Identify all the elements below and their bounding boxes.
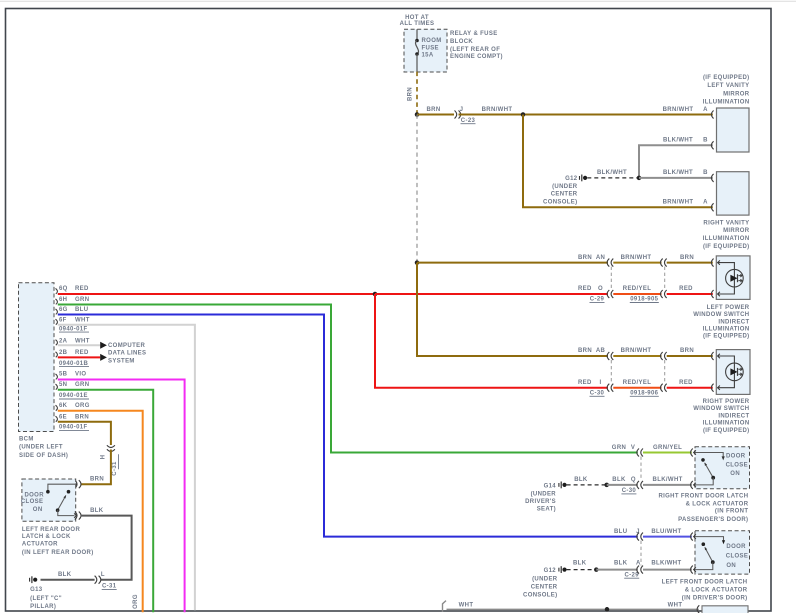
svg-text:LEFT FRONT DOOR LATCH: LEFT FRONT DOOR LATCH xyxy=(662,580,748,586)
ground G12 (under center console) xyxy=(580,175,588,182)
junction at fuse output xyxy=(415,112,420,117)
svg-text:(UNDER: (UNDER xyxy=(532,577,558,583)
svg-text:BRN/WHT: BRN/WHT xyxy=(621,255,652,261)
switch pivot right front xyxy=(711,476,715,480)
junction BLK/WHT xyxy=(637,176,642,181)
svg-text:ALL TIMES: ALL TIMES xyxy=(400,21,435,27)
BCM pin 2B RED xyxy=(56,350,90,357)
label HOT AT ALL TIMES xyxy=(400,15,435,27)
svg-text:ENGINE COMPT): ENGINE COMPT) xyxy=(450,54,503,60)
box right front door latch switch xyxy=(695,447,750,489)
label RIGHT POWER WINDOW SWITCH INDIRECT ILLUMINATION xyxy=(693,399,750,434)
svg-text:BRN: BRN xyxy=(578,348,592,354)
svg-text:GRN: GRN xyxy=(75,382,89,388)
svg-text:0940-01B: 0940-01B xyxy=(59,361,88,367)
page top edge line xyxy=(0,0,796,2)
wire BRN/WHT to left vanity mirror xyxy=(459,114,713,116)
BCM pin 6F WHT xyxy=(56,317,90,324)
wire BRN dashed from fuse xyxy=(416,72,418,113)
svg-text:BLU: BLU xyxy=(75,307,88,313)
switch left front door latch xyxy=(695,537,725,546)
svg-text:(UNDER LEFT: (UNDER LEFT xyxy=(19,445,63,451)
svg-text:BRN: BRN xyxy=(578,255,592,261)
svg-text:LATCH & LOCK: LATCH & LOCK xyxy=(22,534,71,540)
connector body dashed left front xyxy=(640,541,642,566)
svg-text:AB: AB xyxy=(596,348,606,354)
connector C-30 pin V xyxy=(637,449,639,457)
wire GRN from BCM 6H to right front door latch xyxy=(58,305,638,453)
ground G12 lower (under center console) xyxy=(559,566,567,573)
pin connector left vanity B xyxy=(711,141,713,149)
label DOOR CLOSE ON right front xyxy=(726,454,748,478)
wire BLK A to connector xyxy=(596,569,638,571)
switch arm left front xyxy=(705,547,713,562)
ground G14 (under driver's seat) xyxy=(559,482,567,489)
fuse ROOM FUSE 15A xyxy=(415,29,419,71)
wire BLK from C-31 to ground xyxy=(41,579,95,581)
switch arm right front xyxy=(705,463,714,478)
svg-text:6K: 6K xyxy=(59,403,68,409)
wire RED from BCM 6Q xyxy=(58,293,375,295)
svg-text:RED: RED xyxy=(75,350,89,356)
box left rear door latch switch xyxy=(22,479,76,521)
wire BLU/WHT to left front latch xyxy=(643,536,692,538)
pin chevron right front bottom xyxy=(694,483,696,487)
wire BLK/WHT to left front latch xyxy=(643,569,692,571)
box bottom cut off component xyxy=(702,606,748,613)
wire BRN/WHT row2 xyxy=(613,355,661,357)
box left vanity mirror illumination xyxy=(717,108,750,152)
wire BRN from BCM 6E to connector C-31 xyxy=(58,422,111,445)
svg-text:L: L xyxy=(101,572,105,578)
wire WHT bottom row xyxy=(447,608,699,610)
svg-text:PASSENGER'S DOOR): PASSENGER'S DOOR) xyxy=(678,517,748,523)
svg-text:CLOSE: CLOSE xyxy=(21,499,43,505)
svg-text:CLOSE: CLOSE xyxy=(726,553,748,559)
svg-text:B: B xyxy=(703,170,708,176)
fuse block box (RELAY & FUSE BLOCK) xyxy=(404,29,447,72)
connector body dashed row2 second xyxy=(664,360,666,384)
svg-text:ROOM: ROOM xyxy=(422,38,442,44)
led U1 left power window switch xyxy=(717,263,734,294)
svg-text:RIGHT FRONT DOOR LATCH: RIGHT FRONT DOOR LATCH xyxy=(658,493,748,499)
pin connector led box1 top xyxy=(711,259,713,267)
label G14 (UNDER DRIVER'S SEAT) xyxy=(525,483,556,512)
svg-text:RIGHT POWER: RIGHT POWER xyxy=(703,399,750,405)
svg-text:DOOR: DOOR xyxy=(726,544,746,550)
svg-text:BRN: BRN xyxy=(408,87,414,101)
wire RED row2 to box xyxy=(667,387,713,389)
svg-text:0918-905: 0918-905 xyxy=(630,297,658,303)
svg-text:RED: RED xyxy=(679,380,693,386)
svg-text:RED: RED xyxy=(578,286,592,292)
pin chevron door switch BLK xyxy=(74,513,76,517)
svg-text:ILLUMINATION: ILLUMINATION xyxy=(703,100,750,106)
svg-text:C-29: C-29 xyxy=(590,297,605,303)
BCM pin 6K ORG xyxy=(56,403,90,411)
svg-text:LEFT POWER: LEFT POWER xyxy=(707,305,750,311)
wire WHT from BCM 6F xyxy=(58,325,195,611)
svg-text:WINDOW SWITCH: WINDOW SWITCH xyxy=(693,406,749,412)
svg-text:BRN/WHT: BRN/WHT xyxy=(663,107,694,113)
pin connector led box1 bottom xyxy=(711,290,713,298)
svg-text:BRN/WHT: BRN/WHT xyxy=(663,200,694,206)
svg-text:ILLUMINATION: ILLUMINATION xyxy=(703,236,750,242)
svg-text:WINDOW SWITCH: WINDOW SWITCH xyxy=(693,312,749,318)
label G13 (LEFT C PILLAR) xyxy=(30,587,62,610)
svg-text:ON: ON xyxy=(726,563,736,569)
box BCM connector xyxy=(19,283,55,432)
switch pivot left front xyxy=(711,560,715,564)
BCM pin 6Q RED xyxy=(56,286,90,294)
wire BRN from C-31 to door switch xyxy=(81,450,111,485)
junction BRN/WHT branch xyxy=(521,112,526,117)
svg-text:RED: RED xyxy=(75,286,89,292)
svg-text:COMPUTER: COMPUTER xyxy=(108,343,145,349)
svg-text:5N: 5N xyxy=(59,382,67,388)
svg-text:DOOR: DOOR xyxy=(24,493,44,499)
pin chevron led box2 top xyxy=(718,354,720,358)
connector body dashed row1 second xyxy=(664,267,666,290)
svg-text:CENTER: CENTER xyxy=(531,585,558,591)
svg-text:GRN/YEL: GRN/YEL xyxy=(653,445,682,451)
junction RED branch xyxy=(373,292,378,297)
svg-text:BRN: BRN xyxy=(680,255,694,261)
svg-text:0940-01F: 0940-01F xyxy=(59,425,88,431)
arrow computer data lines 2 xyxy=(100,354,107,361)
svg-text:O: O xyxy=(598,286,603,292)
connector C-29 pin A xyxy=(637,566,639,574)
pin connector door switch BLK xyxy=(75,512,77,520)
svg-text:& LOCK ACTUATOR: & LOCK ACTUATOR xyxy=(685,588,748,594)
svg-text:(IN FRONT: (IN FRONT xyxy=(715,509,748,515)
label LEFT POWER WINDOW SWITCH INDIRECT ILLUMINATION xyxy=(693,305,750,340)
pin connector right front latch top xyxy=(691,449,693,457)
svg-text:V: V xyxy=(631,445,635,451)
svg-text:& LOCK ACTUATOR: & LOCK ACTUATOR xyxy=(686,501,749,507)
pin connector left front latch top xyxy=(691,533,693,541)
junction BRN at row 1 xyxy=(415,260,420,265)
wire to BLK pin left rear xyxy=(58,510,75,516)
svg-text:6H: 6H xyxy=(59,297,67,303)
svg-text:SEAT): SEAT) xyxy=(537,506,556,512)
svg-text:ON: ON xyxy=(730,471,740,477)
svg-text:RED: RED xyxy=(679,286,693,292)
svg-text:6G: 6G xyxy=(59,307,68,313)
connector C-31 pin L xyxy=(95,576,97,584)
wire GRN/YEL to right front door latch xyxy=(643,452,692,454)
svg-text:BLK/WHT: BLK/WHT xyxy=(597,170,627,176)
svg-text:DRIVER'S: DRIVER'S xyxy=(525,499,556,505)
pin connector bottom box xyxy=(697,605,699,613)
pin connector left front latch bottom xyxy=(691,566,693,574)
label G12 under center console xyxy=(543,176,578,205)
svg-text:CONSOLE): CONSOLE) xyxy=(543,199,577,205)
svg-text:INDIRECT: INDIRECT xyxy=(718,413,749,419)
wire GRN from BCM 5N xyxy=(58,390,153,613)
svg-text:BRN/WHT: BRN/WHT xyxy=(621,348,652,354)
svg-text:BLK/WHT: BLK/WHT xyxy=(663,138,693,144)
svg-text:(IN DRIVER'S DOOR): (IN DRIVER'S DOOR) xyxy=(682,596,748,602)
connector 0918-906 arcs row2 brn xyxy=(661,352,663,360)
svg-text:G12: G12 xyxy=(565,176,578,182)
switch left rear door latch xyxy=(46,484,76,493)
wire WHT 2A to computer data lines xyxy=(58,344,100,346)
wire BRN row2 to box xyxy=(667,355,713,357)
label RIGHT FRONT DOOR LATCH & LOCK ACTUATOR xyxy=(658,493,748,523)
svg-text:6E: 6E xyxy=(59,414,67,420)
svg-text:WHT: WHT xyxy=(459,603,474,609)
svg-text:ACTUATOR: ACTUATOR xyxy=(22,541,58,547)
connector C-30 pin Q xyxy=(637,481,639,489)
junction BLK G12 xyxy=(594,567,599,572)
connector C-30 arcs row2 brn xyxy=(607,352,609,360)
svg-text:(IN LEFT REAR DOOR): (IN LEFT REAR DOOR) xyxy=(22,550,94,556)
pin connector led box2 top xyxy=(711,352,713,360)
svg-text:BLK: BLK xyxy=(90,508,104,514)
BCM pin 6E BRN xyxy=(56,414,90,421)
label BLU J xyxy=(614,529,640,535)
svg-text:LEFT REAR DOOR: LEFT REAR DOOR xyxy=(22,527,81,533)
wire to BLK pin right front xyxy=(695,478,713,485)
connector C-23 pin J xyxy=(455,111,461,119)
svg-text:C-31: C-31 xyxy=(102,584,117,590)
label BLK Q xyxy=(612,477,636,483)
label LEFT REAR DOOR LATCH & LOCK ACTUATOR xyxy=(22,527,94,556)
svg-text:BLK: BLK xyxy=(614,560,628,566)
connector body dashed row2 first xyxy=(610,360,612,384)
wire BRN to C-23 xyxy=(417,114,454,116)
svg-text:6Q: 6Q xyxy=(59,286,68,292)
svg-text:BRN: BRN xyxy=(90,477,104,483)
connector C-31 pin H vertical xyxy=(107,445,115,451)
label ROOM FUSE 15A xyxy=(422,38,442,58)
svg-text:VIO: VIO xyxy=(75,372,86,378)
svg-text:2B: 2B xyxy=(59,350,68,356)
svg-text:G13: G13 xyxy=(30,587,43,593)
wire BLK/WHT from left vanity pin B xyxy=(639,145,713,178)
switch pivot left rear xyxy=(56,508,60,512)
svg-text:C-31: C-31 xyxy=(112,461,118,476)
pin chevron left front top xyxy=(694,534,696,538)
svg-text:RED/YEL: RED/YEL xyxy=(623,286,651,292)
connector C-29 pin J xyxy=(637,533,639,541)
svg-text:BLK: BLK xyxy=(573,560,587,566)
wire BLU from BCM 6G to left front door latch xyxy=(58,315,638,537)
wire dashed vertical to window switch rows xyxy=(416,115,418,263)
pin chevron left front bottom xyxy=(694,567,696,571)
svg-text:BRN: BRN xyxy=(680,348,694,354)
svg-text:0940-01F: 0940-01F xyxy=(59,326,88,332)
svg-text:BLOCK: BLOCK xyxy=(450,39,473,45)
svg-text:BLK: BLK xyxy=(574,477,588,483)
svg-text:PILLAR): PILLAR) xyxy=(30,604,56,610)
switch arm left rear xyxy=(58,495,66,510)
connector 0918-905 row1 xyxy=(661,259,663,267)
ground G13 (left C pillar) xyxy=(30,576,38,583)
svg-text:6F: 6F xyxy=(59,317,67,323)
label LEFT FRONT DOOR LATCH & LOCK ACTUATOR xyxy=(662,580,748,602)
svg-text:G14: G14 xyxy=(544,483,557,489)
connector C-29 arcs row1 red xyxy=(607,290,609,298)
svg-text:WHT: WHT xyxy=(75,338,90,344)
svg-text:RED: RED xyxy=(578,380,592,386)
pin connector right vanity A xyxy=(711,203,713,211)
svg-text:CONSOLE): CONSOLE) xyxy=(523,593,557,599)
wire BLK Q to connector xyxy=(607,484,638,486)
svg-text:BCM: BCM xyxy=(19,437,34,443)
connector C-30 arcs row2 red xyxy=(607,384,609,392)
svg-text:A: A xyxy=(703,107,708,113)
svg-text:I: I xyxy=(599,380,601,386)
wire BRN/WHT branch to right vanity pin A xyxy=(523,115,713,208)
svg-text:FUSE: FUSE xyxy=(422,45,439,51)
svg-text:ON: ON xyxy=(33,507,43,513)
svg-text:BRN: BRN xyxy=(75,414,89,420)
wire RED row1 xyxy=(375,293,608,295)
wire BLK dashed from G12 lower xyxy=(567,569,597,571)
svg-text:BLK: BLK xyxy=(612,477,626,483)
svg-text:(UNDER: (UNDER xyxy=(531,491,557,497)
wire RED/YEL row2 xyxy=(613,387,661,389)
connector body dashed right front xyxy=(640,457,642,481)
svg-text:2A: 2A xyxy=(59,338,68,344)
svg-text:0940-01E: 0940-01E xyxy=(59,393,88,399)
wire BLK from door switch to G13 xyxy=(81,516,132,580)
label G12 (UNDER CENTER CONSOLE) lower xyxy=(523,568,558,599)
svg-text:(IF EQUIPPED): (IF EQUIPPED) xyxy=(703,244,750,250)
wire BRN/WHT row1 xyxy=(613,262,661,264)
svg-text:WHT: WHT xyxy=(75,317,90,323)
svg-text:BLU/WHT: BLU/WHT xyxy=(651,529,681,535)
pin chevron led box1 bottom xyxy=(718,292,720,296)
svg-text:(IF EQUIPPED): (IF EQUIPPED) xyxy=(703,334,750,340)
svg-text:15A: 15A xyxy=(422,52,434,58)
label LEFT VANITY MIRROR ILLUMINATION xyxy=(703,75,750,106)
svg-text:0918-906: 0918-906 xyxy=(630,391,658,397)
svg-text:SYSTEM: SYSTEM xyxy=(108,358,135,364)
connector body dashed row1 first xyxy=(610,267,612,290)
svg-text:(LEFT "C": (LEFT "C" xyxy=(30,596,62,602)
arrow computer data lines 1 xyxy=(100,342,107,349)
wire RED/YEL row1 xyxy=(613,293,661,295)
wire WHT bottom stub from off page xyxy=(443,601,447,612)
svg-text:WHT: WHT xyxy=(668,603,683,609)
svg-text:MIRROR: MIRROR xyxy=(723,91,750,97)
svg-text:G12: G12 xyxy=(544,568,557,574)
BCM pin 5N GRN xyxy=(56,382,90,390)
label COMPUTER DATA LINES SYSTEM xyxy=(108,343,146,365)
svg-text:DATA LINES: DATA LINES xyxy=(108,351,146,357)
svg-text:AN: AN xyxy=(596,255,605,261)
svg-text:MIRROR: MIRROR xyxy=(723,228,750,234)
box left power window switch illumination xyxy=(716,256,750,300)
svg-text:Q: Q xyxy=(631,477,636,483)
svg-text:ILLUMINATION: ILLUMINATION xyxy=(703,421,750,427)
svg-text:C-23: C-23 xyxy=(461,118,476,124)
connector 0918-905 arcs red row1 xyxy=(661,290,663,298)
svg-text:BLK/WHT: BLK/WHT xyxy=(663,170,693,176)
label DOOR CLOSE ON left front xyxy=(726,544,748,569)
wire VIO from BCM 5B xyxy=(58,380,185,613)
svg-text:C-30: C-30 xyxy=(622,488,637,494)
svg-text:BRN: BRN xyxy=(426,107,440,113)
pin chevron led box2 bottom xyxy=(718,386,720,390)
pin chevron door switch BRN xyxy=(74,482,76,486)
box right vanity mirror illumination xyxy=(717,172,750,215)
svg-text:CENTER: CENTER xyxy=(551,192,578,198)
svg-text:BLU: BLU xyxy=(614,529,627,535)
label RIGHT VANITY MIRROR ILLUMINATION xyxy=(703,220,750,249)
BCM pin 2A WHT xyxy=(56,338,90,345)
pin chevron led box1 top xyxy=(718,260,720,264)
svg-text:A: A xyxy=(703,200,708,206)
pin connector right vanity B xyxy=(711,174,713,182)
wire BLK/WHT dashed to G12 xyxy=(587,177,639,179)
connector 0918-906 arcs red row2 xyxy=(661,384,663,392)
svg-text:ILLUMINATION: ILLUMINATION xyxy=(703,327,750,333)
svg-text:J: J xyxy=(460,107,464,113)
svg-text:RELAY & FUSE: RELAY & FUSE xyxy=(450,31,498,37)
svg-text:ORG: ORG xyxy=(75,403,90,409)
led U2 right power window switch xyxy=(717,356,734,388)
svg-text:H: H xyxy=(100,455,106,460)
label BCM (UNDER LEFT SIDE OF DASH) xyxy=(19,437,68,460)
svg-text:GRN: GRN xyxy=(612,445,626,451)
pin connector led box2 bottom xyxy=(711,384,713,392)
svg-text:(LEFT REAR OF: (LEFT REAR OF xyxy=(450,47,500,53)
wire RED 2B to computer data lines xyxy=(58,356,100,358)
svg-text:ORG: ORG xyxy=(133,594,139,609)
svg-text:B: B xyxy=(703,138,708,144)
wire BRN row1 to box xyxy=(667,262,713,264)
wire RED row1 to box xyxy=(667,293,713,295)
svg-text:RIGHT VANITY: RIGHT VANITY xyxy=(703,220,749,226)
connector C-29 pin O row1 xyxy=(607,259,609,267)
svg-text:LEFT VANITY: LEFT VANITY xyxy=(707,83,749,89)
pin connector left vanity A xyxy=(711,111,713,119)
svg-text:DOOR: DOOR xyxy=(726,454,746,460)
wire RED branch down to row2 xyxy=(375,294,608,388)
svg-text:BLK/WHT: BLK/WHT xyxy=(651,560,681,566)
svg-text:BLK: BLK xyxy=(58,572,72,578)
box left front door latch switch xyxy=(695,531,750,574)
label DOOR CLOSE ON left rear xyxy=(21,493,44,514)
svg-text:BLK/WHT: BLK/WHT xyxy=(653,477,683,483)
svg-text:C-30: C-30 xyxy=(590,391,605,397)
wire to BLK pin left front xyxy=(695,562,713,569)
svg-text:(IF EQUIPPED): (IF EQUIPPED) xyxy=(703,75,750,81)
svg-text:(UNDER: (UNDER xyxy=(552,184,578,190)
label GRN V xyxy=(612,445,635,451)
junction BLK G14 xyxy=(604,483,609,488)
label RELAY & FUSE BLOCK (LEFT REAR OF ENGINE COMPT) xyxy=(450,31,503,60)
svg-text:C-29: C-29 xyxy=(624,572,639,578)
wire BLK/WHT to right front latch xyxy=(643,484,692,486)
BCM pin 5B VIO xyxy=(56,372,87,380)
svg-text:BRN/WHT: BRN/WHT xyxy=(482,107,513,113)
svg-text:RED/YEL: RED/YEL xyxy=(623,380,651,386)
svg-text:CLOSE: CLOSE xyxy=(726,463,748,469)
wire ORG from BCM 6K xyxy=(58,411,143,613)
svg-text:HOT AT: HOT AT xyxy=(405,15,429,21)
box right power window switch illumination xyxy=(716,350,750,395)
svg-text:5B: 5B xyxy=(59,372,68,378)
svg-text:SIDE OF DASH): SIDE OF DASH) xyxy=(19,453,68,459)
pin connector door switch BRN xyxy=(75,480,77,488)
BCM pin 6G BLU xyxy=(56,307,89,314)
BCM pin 6H GRN xyxy=(56,297,90,304)
